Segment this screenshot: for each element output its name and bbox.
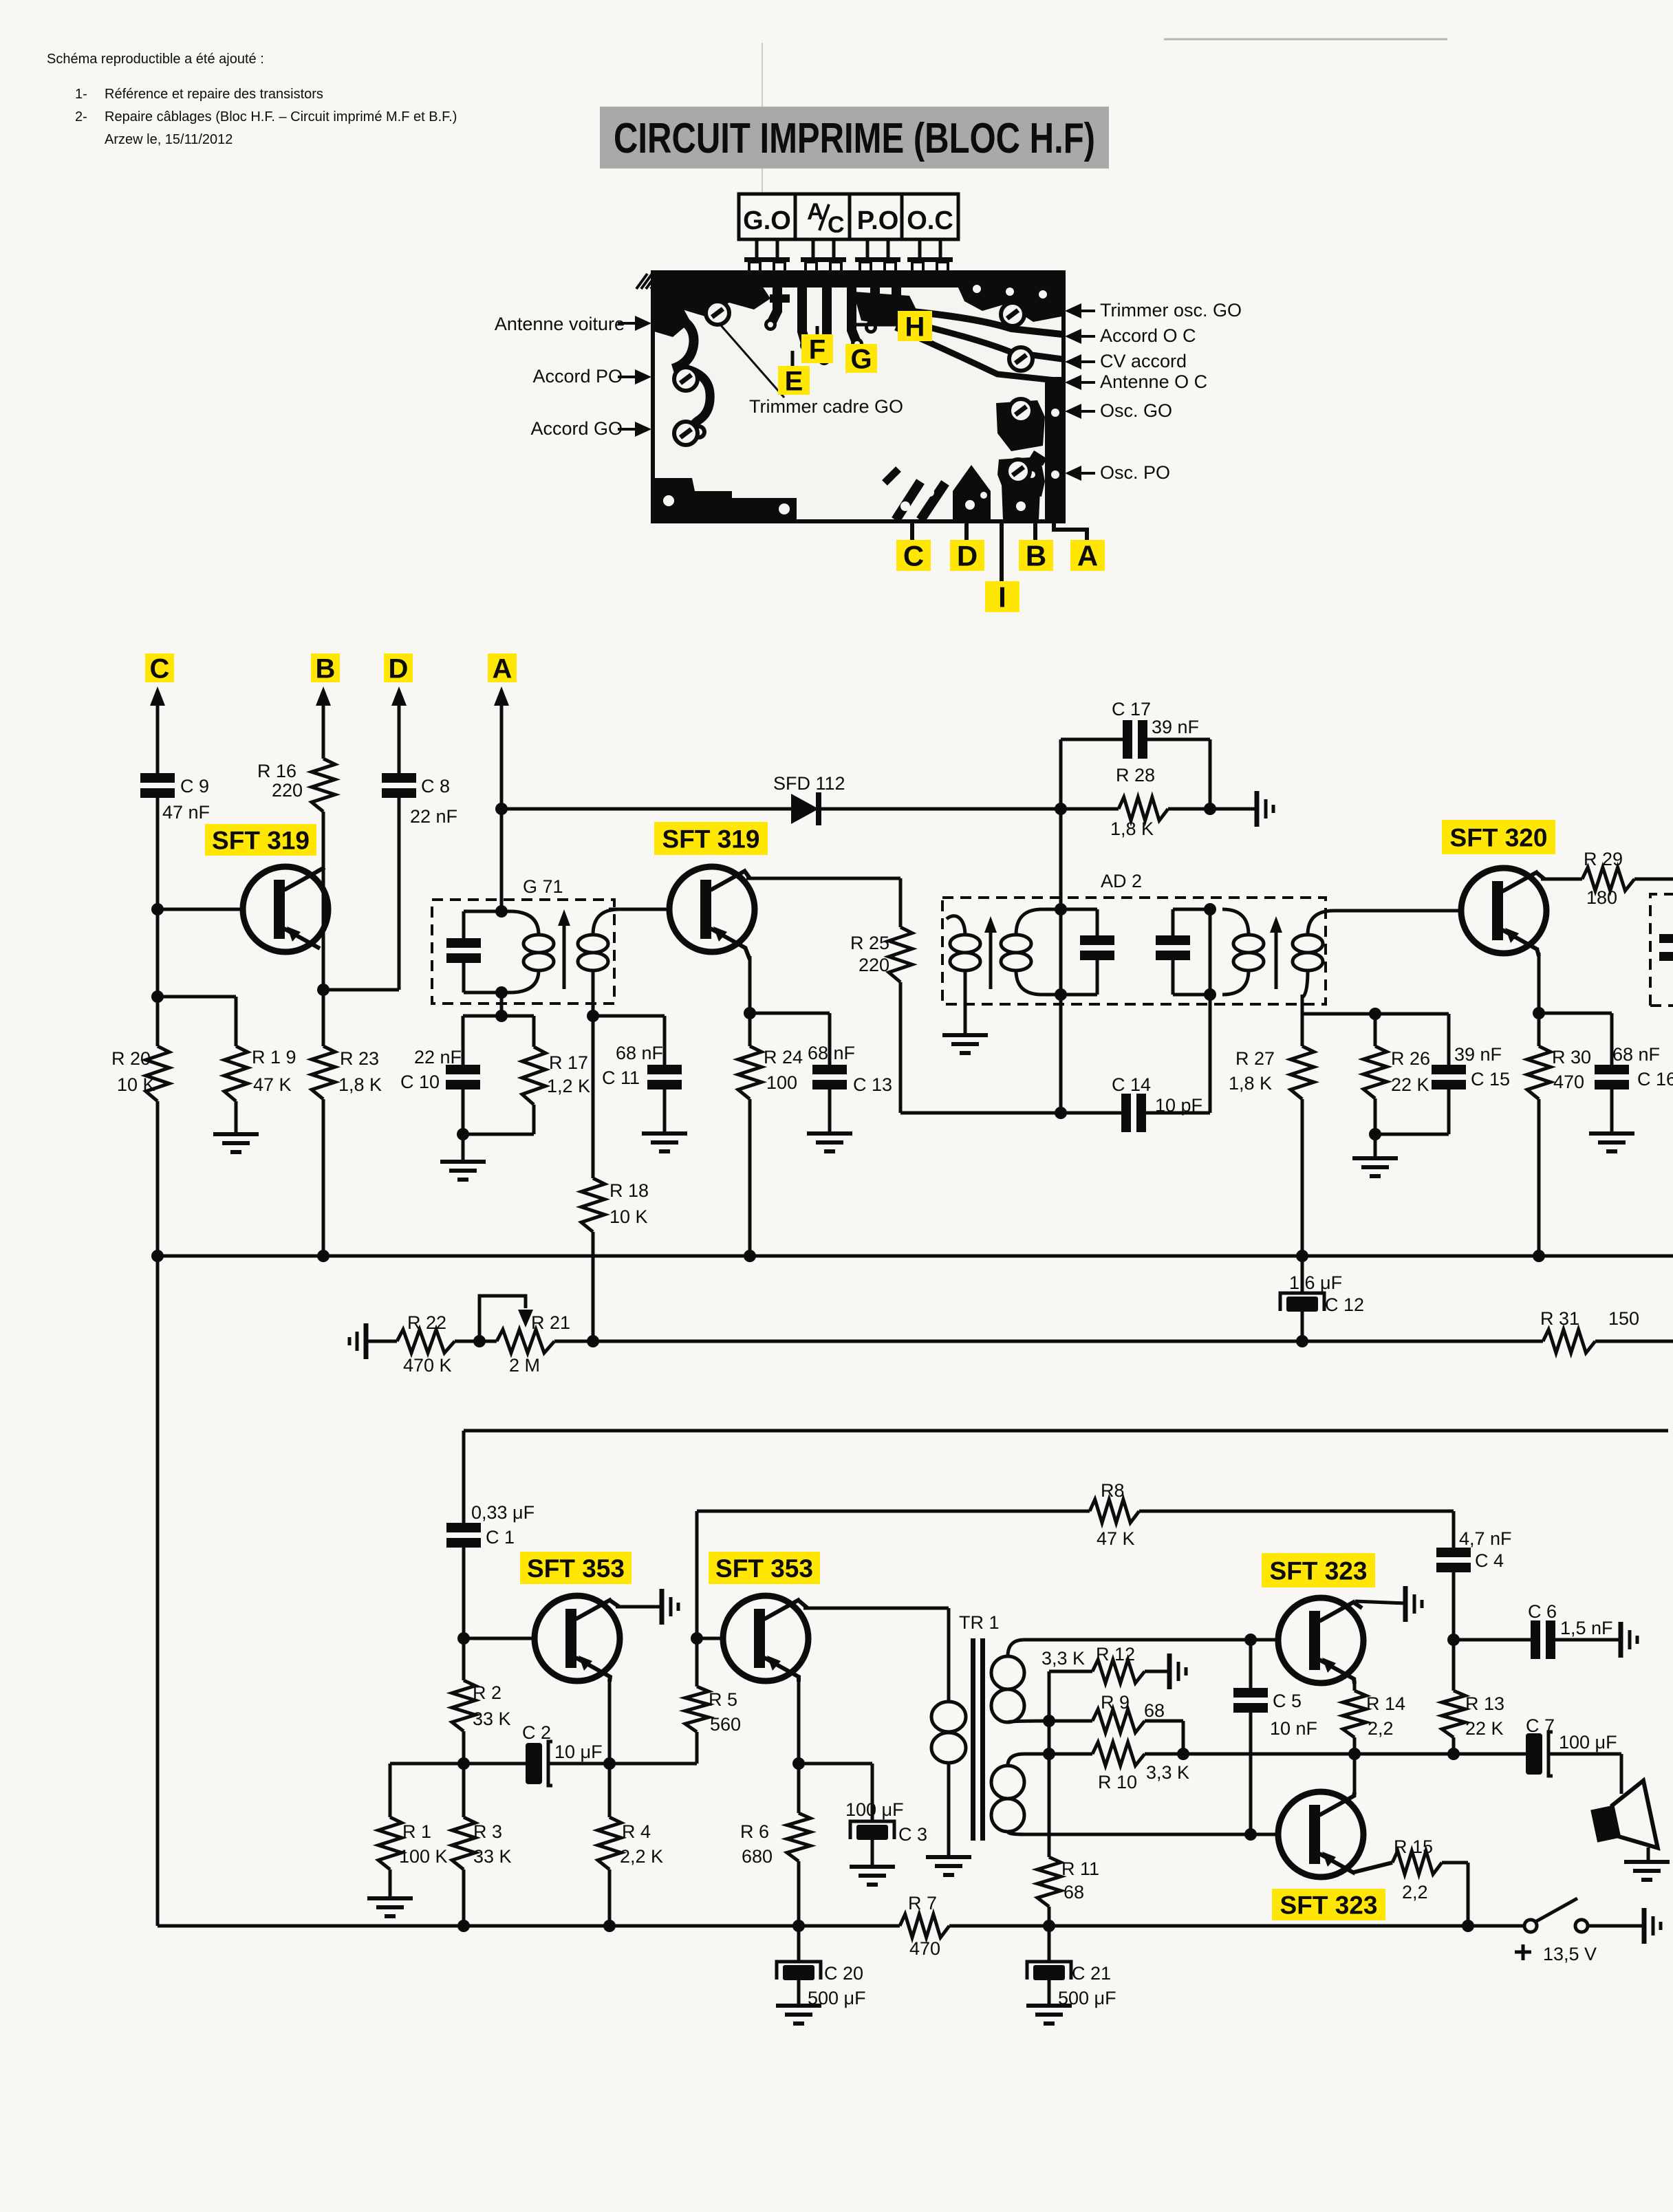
svg-text:I: I [998,581,1006,614]
svg-text:P.O: P.O [857,206,899,235]
svg-text:A: A [807,199,824,225]
svg-text:39 nF: 39 nF [1454,1044,1502,1065]
svg-text:1,8 K: 1,8 K [1110,818,1154,839]
svg-text:R 30: R 30 [1552,1047,1591,1067]
svg-text:100 μF: 100 μF [845,1799,904,1820]
svg-text:C 17: C 17 [1112,699,1151,719]
svg-text:E: E [785,366,803,396]
svg-text:SFT 323: SFT 323 [1280,1891,1378,1919]
svg-text:C 16: C 16 [1637,1069,1673,1089]
svg-text:47 K: 47 K [1097,1528,1135,1549]
svg-text:C 5: C 5 [1273,1691,1302,1711]
svg-text:2,2 K: 2,2 K [620,1846,663,1867]
svg-text:10 K: 10 K [609,1206,648,1227]
svg-text:68: 68 [1064,1882,1084,1902]
svg-text:B: B [1026,540,1046,572]
svg-text:C 13: C 13 [853,1074,892,1095]
svg-text:G.O: G.O [743,206,791,235]
svg-text:Accord O C: Accord O C [1100,325,1196,346]
svg-text:A: A [493,653,512,684]
svg-text:R 14: R 14 [1366,1693,1405,1714]
svg-text:C: C [903,540,924,572]
svg-text:A: A [1077,540,1098,572]
svg-text:3,3 K: 3,3 K [1041,1648,1085,1669]
svg-text:Antenne voiture: Antenne voiture [495,314,625,334]
svg-text:SFD 112: SFD 112 [773,773,845,794]
svg-text:R 15: R 15 [1394,1836,1433,1857]
svg-text:100: 100 [766,1072,797,1093]
svg-text:R 3: R 3 [473,1821,502,1842]
svg-text:33 K: 33 K [473,1709,511,1729]
svg-text:10 μF: 10 μF [554,1742,603,1762]
svg-text:C 8: C 8 [421,776,450,796]
svg-text:C 2: C 2 [522,1722,551,1743]
svg-text:22 K: 22 K [1391,1074,1429,1095]
svg-text:Référence et repaire des trans: Référence et repaire des transistors [105,87,323,102]
svg-text:R 10: R 10 [1098,1772,1137,1792]
svg-text:0,33 μF: 0,33 μF [471,1502,535,1523]
svg-text:2-: 2- [75,109,87,124]
svg-text:R 6: R 6 [740,1821,769,1842]
svg-text:D: D [957,540,978,572]
svg-text:R 24: R 24 [764,1047,803,1067]
svg-text:G 71: G 71 [523,876,563,897]
svg-text:47 nF: 47 nF [162,802,210,823]
svg-text:C 11: C 11 [602,1067,640,1088]
svg-text:SFT 353: SFT 353 [527,1554,625,1583]
svg-text:R 31: R 31 [1540,1308,1579,1329]
svg-text:C 14: C 14 [1112,1074,1151,1095]
svg-text:R 4: R 4 [622,1821,651,1842]
svg-text:R 17: R 17 [549,1052,588,1073]
svg-text:10 K: 10 K [117,1074,155,1095]
svg-text:Accord PO: Accord PO [532,366,623,387]
svg-text:SFT 353: SFT 353 [715,1554,813,1583]
svg-text:C 3: C 3 [898,1824,927,1845]
svg-text:Osc. PO: Osc. PO [1100,462,1170,483]
svg-text:R 26: R 26 [1391,1048,1430,1069]
svg-text:R 9: R 9 [1101,1692,1130,1713]
svg-text:22 nF: 22 nF [414,1047,462,1067]
svg-text:R 28: R 28 [1116,765,1155,785]
svg-text:R 2: R 2 [473,1682,501,1703]
svg-text:47 K: 47 K [253,1074,292,1095]
svg-text:1,2 K: 1,2 K [547,1076,590,1096]
svg-text:68: 68 [1144,1700,1165,1721]
svg-text:1,8 K: 1,8 K [1229,1073,1272,1094]
svg-text:Accord GO: Accord GO [530,418,623,439]
svg-text:560: 560 [710,1714,741,1735]
svg-text:R 1: R 1 [402,1821,431,1842]
svg-text:C 9: C 9 [180,776,209,796]
svg-text:R 7: R 7 [908,1893,937,1913]
svg-text:SFT 319: SFT 319 [662,825,760,853]
svg-text:R 16: R 16 [257,761,296,781]
svg-text:R 22: R 22 [407,1312,446,1333]
svg-text:R 23: R 23 [340,1048,379,1069]
svg-text:1,5 nF: 1,5 nF [1560,1618,1613,1638]
svg-text:R 11: R 11 [1061,1858,1099,1879]
svg-text:C 4: C 4 [1475,1550,1504,1571]
svg-text:4,7 nF: 4,7 nF [1459,1528,1512,1549]
svg-text:2,2: 2,2 [1368,1718,1394,1739]
svg-text:C 7: C 7 [1526,1715,1555,1736]
svg-text:100 K: 100 K [399,1846,448,1867]
svg-text:R 12: R 12 [1096,1644,1135,1665]
svg-text:22 nF: 22 nF [410,806,457,827]
svg-text:C 1: C 1 [486,1527,515,1548]
svg-text:D: D [389,653,409,684]
svg-text:Osc. GO: Osc. GO [1100,400,1172,421]
svg-text:1-: 1- [75,87,87,102]
svg-text:3,3 K: 3,3 K [1146,1762,1189,1783]
svg-text:B: B [316,653,336,684]
svg-text:AD 2: AD 2 [1101,871,1142,891]
svg-text:22 K: 22 K [1465,1718,1504,1739]
svg-text:470 K: 470 K [403,1355,452,1376]
svg-text:1,6 μF: 1,6 μF [1289,1272,1342,1293]
svg-text:Antenne O C: Antenne O C [1100,371,1207,392]
svg-text:2,2: 2,2 [1402,1882,1428,1902]
svg-text:R 13: R 13 [1465,1693,1504,1714]
svg-text:C: C [150,653,170,684]
svg-text:470: 470 [1553,1072,1584,1092]
svg-text:10 pF: 10 pF [1155,1095,1202,1116]
svg-text:Schéma reproductible a été ajo: Schéma reproductible a été ajouté : [47,52,264,67]
svg-text:500 μF: 500 μF [808,1988,866,2008]
svg-text:C 6: C 6 [1528,1601,1557,1622]
svg-text:CIRCUIT IMPRIME (BLOC H.F): CIRCUIT IMPRIME (BLOC H.F) [614,115,1095,162]
svg-text:Trimmer osc. GO: Trimmer osc. GO [1100,300,1242,321]
svg-text:SFT 319: SFT 319 [212,826,310,854]
svg-text:100 μF: 100 μF [1559,1732,1617,1753]
svg-text:R 1 9: R 1 9 [252,1047,296,1067]
svg-text:R 20: R 20 [111,1048,151,1069]
svg-text:Arzew le, 15/11/2012: Arzew le, 15/11/2012 [105,132,233,147]
svg-text:500 μF: 500 μF [1058,1988,1116,2008]
svg-text:R8: R8 [1101,1480,1125,1501]
svg-text:10 nF: 10 nF [1270,1718,1317,1739]
svg-text:C 10: C 10 [400,1072,440,1092]
svg-text:C 21: C 21 [1072,1963,1111,1984]
svg-text:C 15: C 15 [1471,1069,1510,1089]
svg-text:H: H [905,312,925,342]
svg-text:68 nF: 68 nF [808,1043,855,1063]
svg-text:R 25: R 25 [850,933,889,953]
svg-text:68 nF: 68 nF [616,1043,663,1063]
svg-text:Trimmer cadre GO: Trimmer cadre GO [749,396,903,417]
svg-text:220: 220 [272,780,303,801]
svg-text:R 21: R 21 [531,1312,570,1333]
svg-text:C 20: C 20 [824,1963,863,1984]
svg-text:13,5 V: 13,5 V [1543,1944,1597,1964]
svg-text:G: G [850,344,872,374]
svg-text:C: C [828,212,845,238]
svg-text:F: F [809,334,825,365]
svg-text:O.C: O.C [907,206,953,235]
svg-text:1,8 K: 1,8 K [338,1074,382,1095]
svg-text:150: 150 [1608,1308,1639,1329]
svg-text:470: 470 [909,1938,940,1959]
svg-text:33 K: 33 K [473,1846,512,1867]
svg-text:R 5: R 5 [709,1689,737,1710]
svg-text:SFT 320: SFT 320 [1450,823,1548,852]
svg-text:R 18: R 18 [609,1180,649,1201]
svg-text:Repaire câblages (Bloc H.F. –: Repaire câblages (Bloc H.F. – Circuit im… [105,109,457,124]
svg-text:180: 180 [1586,887,1617,908]
svg-text:R 27: R 27 [1235,1048,1275,1069]
svg-text:CV accord: CV accord [1100,351,1187,371]
svg-text:220: 220 [859,955,889,975]
svg-text:68 nF: 68 nF [1612,1044,1660,1065]
svg-text:2 M: 2 M [509,1355,540,1376]
svg-text:C 12: C 12 [1325,1294,1364,1315]
svg-text:R 29: R 29 [1584,849,1623,869]
svg-text:TR 1: TR 1 [959,1612,1000,1633]
svg-text:SFT 323: SFT 323 [1270,1557,1368,1585]
svg-text:39 nF: 39 nF [1152,717,1199,737]
svg-text:680: 680 [742,1846,773,1867]
